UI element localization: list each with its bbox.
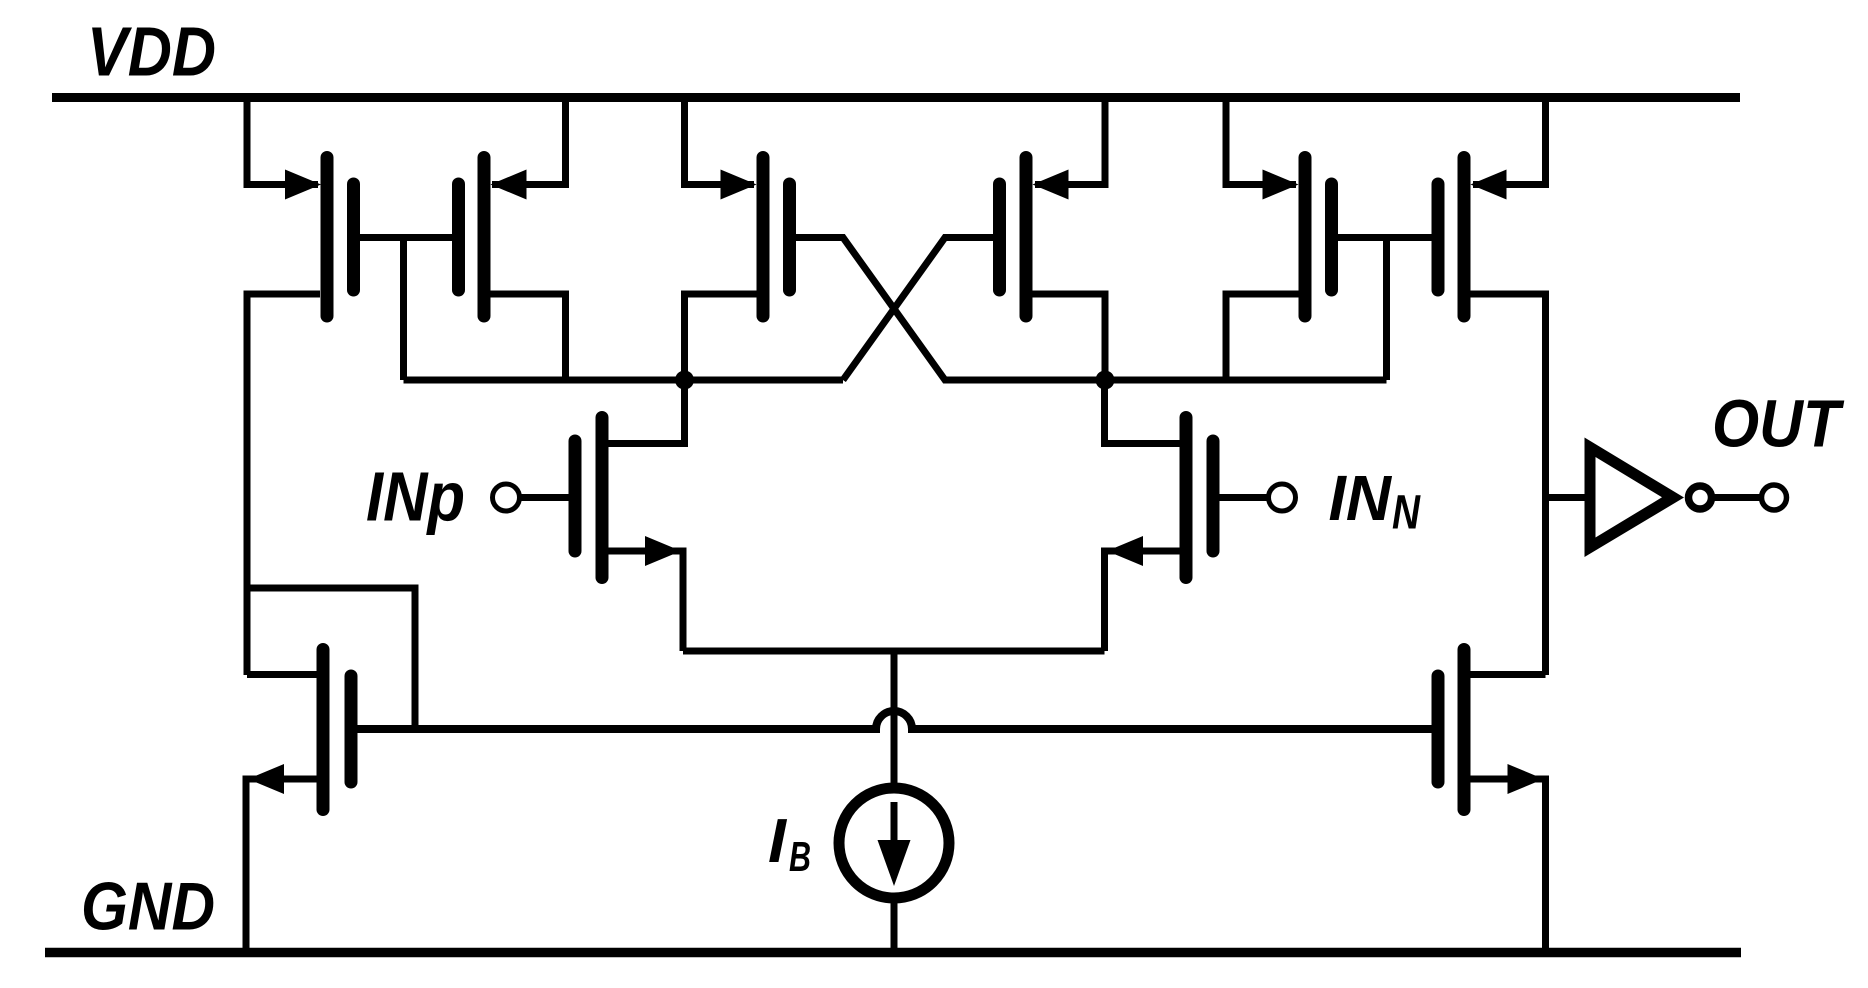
NMOS M7 source arrow: [248, 764, 284, 794]
NMOS MIN2 source arrow: [1107, 536, 1143, 566]
GND rail: [45, 948, 1741, 958]
PMOS M6 channel bar: [1458, 158, 1471, 317]
current source IB arrow head: [878, 840, 911, 886]
VDD rail: [52, 93, 1740, 102]
NMOS MIN1 gate wire: [520, 494, 569, 501]
inverter U1 triangle: [1585, 438, 1685, 558]
current source IB arrow shaft: [891, 802, 898, 858]
svg-text:N: N: [1392, 487, 1421, 540]
NMOS M7 channel bar: [317, 650, 330, 810]
PMOS M6 source wire from VDD: [1473, 97, 1546, 185]
tail vertical wire: [891, 651, 898, 790]
PMOS M2 channel bar: [478, 158, 491, 317]
NMOS MIN1 drain wire up to node A: [608, 380, 685, 444]
NMOS M8 source wire to GND: [1470, 779, 1546, 952]
PMOS M3 drain wire to node A: [685, 294, 758, 380]
PMOS M1 drain wire down-left rail: [247, 294, 320, 675]
M1-M2 gate tie wire: [360, 234, 453, 241]
NMOS MIN2 source wire to tail: [1105, 551, 1181, 651]
node A horizontal wire: [404, 377, 844, 384]
NMOS MIN1 source arrow: [645, 536, 681, 566]
NMOS MIN2 gate wire: [1207, 494, 1268, 501]
current source IB circle: [839, 788, 949, 898]
current source bottom wire to GND: [891, 898, 898, 952]
PMOS M6 gate bar: [1432, 184, 1445, 290]
PMOS M1 channel bar: [321, 158, 334, 317]
NMOS M7 gate bar: [345, 676, 358, 782]
svg-text:I: I: [768, 807, 788, 876]
PMOS M2 source arrow: [491, 170, 527, 200]
NMOS MIN1 source wire to tail: [608, 551, 683, 651]
NMOS MIN2 drain wire up to node B: [1105, 380, 1181, 444]
node B junction dot: [1096, 371, 1115, 390]
NMOS MIN1 channel bar: [596, 418, 609, 578]
PMOS M4 channel bar: [1020, 158, 1033, 317]
PMOS M2 drain wire to node A line: [490, 294, 566, 380]
input INN terminal circle: [1269, 484, 1296, 511]
M1-M2 gate tie drop wire: [400, 238, 407, 381]
PMOS M1 source wire from VDD: [247, 97, 318, 185]
NMOS M7 diode branch wire: [247, 588, 415, 729]
svg-text:GND: GND: [81, 869, 215, 945]
PMOS M1 gate bar: [347, 184, 360, 290]
inverter U1 input wire: [1546, 494, 1590, 501]
M5-M6 gate tie drop wire: [1383, 238, 1390, 381]
tail horizontal wire: [683, 648, 1105, 655]
PMOS M4 gate bar: [993, 184, 1006, 290]
inverter U1 output bubble: [1689, 486, 1712, 509]
NMOS MIN2 channel bar: [1180, 418, 1193, 578]
PMOS M3 source wire from VDD: [685, 97, 755, 185]
PMOS M5 gate bar: [1325, 184, 1338, 290]
PMOS M2 gate bar: [452, 184, 465, 290]
NMOS M8 source arrow: [1508, 764, 1544, 794]
NMOS M8 gate bar: [1432, 676, 1445, 782]
PMOS M2 source wire from VDD: [492, 97, 566, 185]
PMOS M3 source arrow: [721, 170, 757, 200]
NMOS M7 drain wire: [247, 671, 317, 678]
input INp terminal circle: [493, 484, 520, 511]
svg-text:INp: INp: [366, 458, 465, 536]
inverter U1 output wire: [1714, 494, 1760, 501]
NMOS M7 source wire to GND: [246, 779, 317, 952]
PMOS M5 drain wire to node B line: [1226, 294, 1299, 380]
PMOS M3 gate bar: [783, 184, 796, 290]
PMOS M5 channel bar: [1299, 158, 1312, 317]
M5-M6 gate tie wire: [1338, 234, 1432, 241]
NMOS M8 drain wire: [1470, 671, 1546, 678]
node A junction dot: [675, 371, 694, 390]
PMOS M4 drain wire to node B: [1032, 294, 1105, 380]
PMOS M3 cross-coupled gate wire to node B: [796, 238, 1387, 381]
svg-text:IN: IN: [1329, 462, 1393, 534]
NMOS M8 channel bar: [1458, 650, 1471, 810]
NMOS MIN1 gate bar: [569, 441, 582, 551]
NMOS mirror gate line with hop over tail: [358, 711, 1432, 729]
PMOS M5 source wire from VDD: [1226, 97, 1296, 185]
svg-text:OUT: OUT: [1712, 387, 1845, 462]
svg-text:VDD: VDD: [87, 13, 216, 91]
PMOS M6 source arrow: [1471, 170, 1507, 200]
PMOS M5 source arrow: [1263, 170, 1299, 200]
PMOS M4 source wire from VDD: [1035, 97, 1105, 185]
PMOS M4 source arrow: [1033, 170, 1069, 200]
PMOS M1 source arrow: [285, 170, 321, 200]
NMOS MIN2 gate bar: [1207, 441, 1220, 551]
svg-text:B: B: [789, 833, 811, 880]
PMOS M4 cross-coupled gate wire to node A: [843, 238, 993, 381]
output OUT terminal circle: [1762, 485, 1787, 510]
PMOS M6 drain wire down output rail: [1470, 294, 1546, 675]
PMOS M3 channel bar: [757, 158, 770, 317]
